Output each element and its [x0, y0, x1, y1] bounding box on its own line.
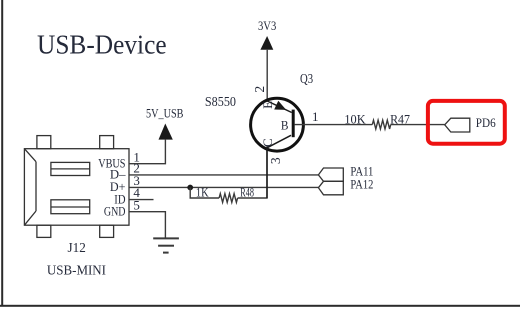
svg-text:C: C [260, 138, 275, 147]
svg-text:B: B [281, 117, 289, 132]
svg-text:PA12: PA12 [350, 176, 373, 191]
svg-text:10K: 10K [344, 111, 366, 126]
svg-text:1: 1 [312, 109, 319, 124]
svg-text:J12: J12 [68, 240, 86, 255]
svg-text:5: 5 [133, 197, 140, 212]
svg-text:E: E [260, 101, 275, 109]
svg-text:PD6: PD6 [476, 115, 496, 130]
svg-text:3: 3 [268, 157, 283, 164]
svg-text:2: 2 [252, 86, 267, 93]
svg-text:USB-MINI: USB-MINI [47, 262, 107, 277]
svg-text:R47: R47 [390, 111, 410, 126]
svg-text:R48: R48 [240, 186, 254, 200]
svg-text:USB-Device: USB-Device [37, 29, 167, 60]
svg-text:1K: 1K [196, 186, 209, 200]
svg-text:Q3: Q3 [300, 71, 313, 86]
svg-text:S8550: S8550 [205, 94, 236, 109]
svg-text:GND: GND [104, 203, 126, 218]
svg-text:3V3: 3V3 [258, 18, 276, 33]
svg-text:5V_USB: 5V_USB [146, 107, 184, 121]
